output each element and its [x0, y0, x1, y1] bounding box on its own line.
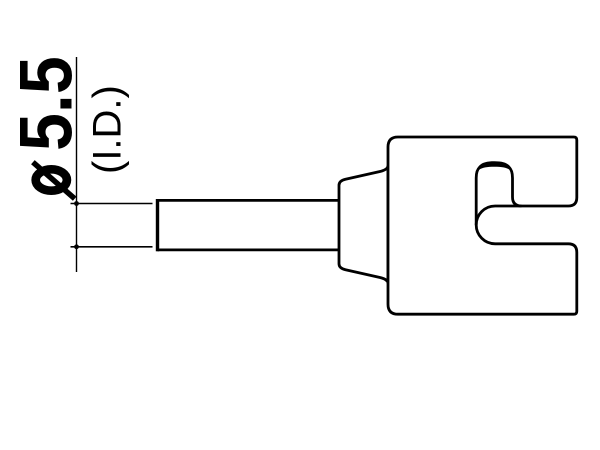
wire tube left end	[156, 199, 159, 251]
extension line top	[71, 203, 153, 205]
svg-text:5.5: 5.5	[6, 56, 88, 151]
body (nozzle block with hook slot)	[388, 137, 577, 314]
slot inner edge (hook overlap line)	[476, 206, 521, 225]
svg-text:(I.D.): (I.D.)	[86, 85, 130, 174]
wire tube bottom line	[158, 248, 345, 251]
extension line bottom	[71, 246, 153, 248]
dimension vertical line	[76, 57, 78, 272]
dimension dot bottom	[74, 244, 79, 249]
tube (nozzle pipe)	[158, 199, 345, 251]
channel top cap (bold arc)	[476, 161, 512, 176]
wire tube top line	[158, 199, 345, 202]
diameter symbol slash	[33, 162, 75, 199]
diameter symbol ellipse	[36, 169, 67, 190]
taper (flared collar)	[339, 166, 388, 284]
dimension dot top	[74, 201, 79, 206]
